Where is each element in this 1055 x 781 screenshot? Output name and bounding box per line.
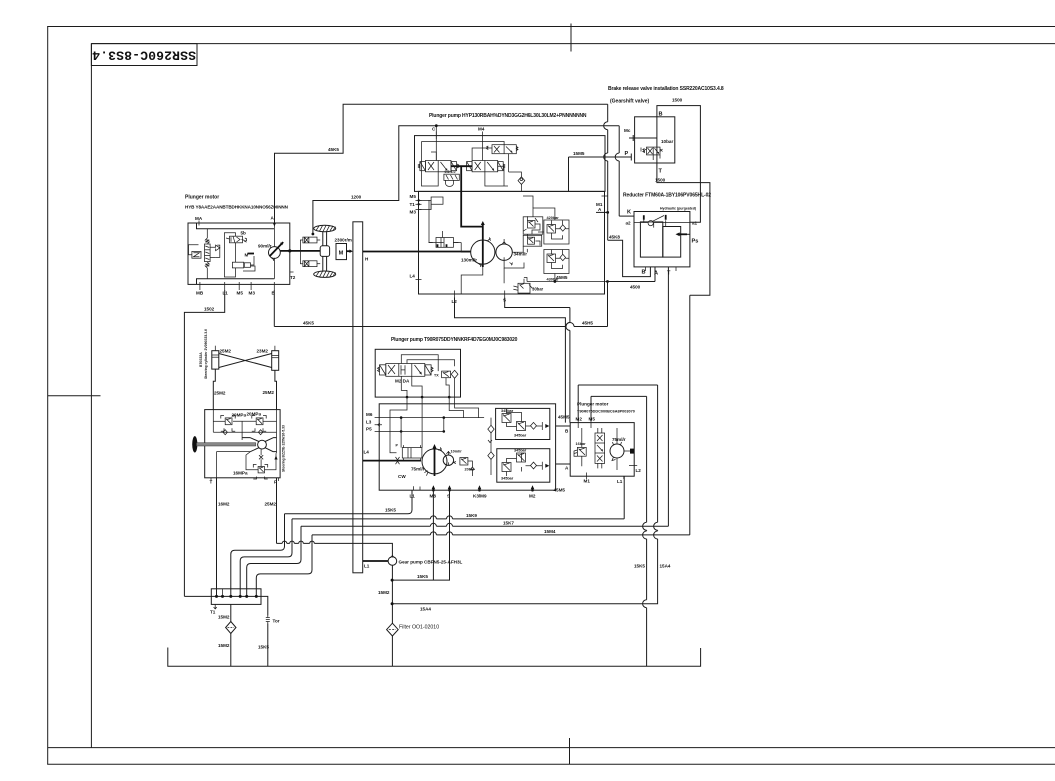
staircase wire 4 xyxy=(256,535,312,597)
wire: motor B port to long line 45K5 xyxy=(273,290,275,327)
svg-text:M: M xyxy=(245,253,249,258)
svg-text:K: K xyxy=(627,210,631,216)
svg-text:10ml/r: 10ml/r xyxy=(451,450,463,454)
svg-text:SSR260C-8S3.4: SSR260C-8S3.4 xyxy=(92,48,196,63)
P1 directional valve V2 xyxy=(467,161,505,172)
steering unit box xyxy=(205,410,280,478)
svg-text:45K5: 45K5 xyxy=(303,321,314,326)
svg-text:M5: M5 xyxy=(589,417,596,422)
wire: H_c long return line xyxy=(312,529,690,535)
wire: gear pump down to filter xyxy=(378,565,431,623)
svg-text:a2: a2 xyxy=(626,221,632,226)
axle brake valve top xyxy=(303,237,320,243)
bottom tank rail xyxy=(168,648,701,667)
P1 hp relief block B 430bar xyxy=(544,250,569,282)
motor shuttle link bracket xyxy=(210,245,220,257)
P1 A-port line xyxy=(596,196,609,214)
wire: y385 line to V_d xyxy=(578,384,657,386)
svg-text:a1: a1 xyxy=(692,221,698,226)
wire: pump1 S to vibration supply xyxy=(505,298,570,423)
plunger motor inner top rail xyxy=(197,223,275,229)
svg-text:15M4: 15M4 xyxy=(544,529,556,534)
plunger motor inner bottom rail xyxy=(197,279,275,285)
staircase wire 3 xyxy=(247,526,301,596)
svg-text:L1: L1 xyxy=(223,291,229,296)
wire: outer top border xyxy=(47,26,1055,28)
steering cylinder right xyxy=(257,346,279,371)
motor output shaft xyxy=(280,249,320,252)
P1 relief 40bar b xyxy=(523,235,542,252)
port M4 xyxy=(478,127,485,161)
Tor drain valve xyxy=(258,616,280,667)
reducer inner boxes xyxy=(634,215,690,257)
wire: pump1 L2 to vibration xyxy=(455,298,566,423)
svg-text:23M2: 23M2 xyxy=(257,349,269,354)
svg-text:90ml/r: 90ml/r xyxy=(258,244,272,249)
svg-text:TX: TX xyxy=(434,374,439,378)
P1 bottom ports L2 S xyxy=(410,274,507,305)
title block SSR260C-8S3.4 xyxy=(91,44,197,66)
P1 check diamond xyxy=(509,172,525,191)
svg-text:CW: CW xyxy=(398,474,406,479)
P1 swash arrow xyxy=(481,221,485,267)
wire: pump2 M8 drain xyxy=(432,490,434,580)
svg-text:T1: T1 xyxy=(410,202,416,207)
reducer labels xyxy=(626,207,699,277)
P2 bottom ports xyxy=(410,485,536,498)
svg-text:Tor: Tor xyxy=(273,619,280,624)
svg-text:15A4: 15A4 xyxy=(420,607,431,612)
axle brake valve bottom xyxy=(303,261,320,267)
svg-text:15M2: 15M2 xyxy=(218,615,230,620)
pump P1 lower box xyxy=(419,191,605,294)
wire: inner bottom border line xyxy=(48,747,1055,749)
svg-text:1502: 1502 xyxy=(204,307,215,312)
wire: pump2 L1 to staircase xyxy=(285,490,413,514)
wire: C-line to reducer K xyxy=(615,126,634,216)
steering wheel xyxy=(192,436,256,452)
vibration motor title xyxy=(577,402,635,414)
reducer bottom port stubs xyxy=(646,267,677,282)
svg-text:345bar: 345bar xyxy=(514,434,527,438)
wire: manifold to Tor valve xyxy=(261,596,268,615)
svg-text:P5: P5 xyxy=(366,427,372,432)
svg-text:M4: M4 xyxy=(478,127,485,132)
drum axle shafts xyxy=(323,232,327,271)
svg-text:15M2: 15M2 xyxy=(378,590,390,595)
steering X orifice xyxy=(259,449,263,467)
wire: Ps column V_b xyxy=(689,295,691,535)
svg-text:20MPa: 20MPa xyxy=(232,413,247,418)
svg-text:B: B xyxy=(642,270,646,276)
svg-text:Gear pump CBFN5-25-AFH3L: Gear pump CBFN5-25-AFH3L xyxy=(399,560,463,565)
P2 pilot check + diamond xyxy=(434,370,458,378)
axle brake bracket wire xyxy=(300,240,303,264)
svg-text:Brake release valve installati: Brake release valve installation SSR220A… xyxy=(608,86,724,92)
svg-text:15K5: 15K5 xyxy=(258,645,269,650)
svg-text:0.8 3.0: 0.8 3.0 xyxy=(445,170,456,174)
svg-text:Plunger motor: Plunger motor xyxy=(185,195,219,201)
P1 servo piston xyxy=(429,231,459,247)
P2 internal buses xyxy=(382,404,484,453)
wire: P-line to brake valve xyxy=(569,151,632,191)
P2 left port labels xyxy=(364,412,383,455)
svg-text:M5: M5 xyxy=(410,194,417,199)
pump drive shaft xyxy=(363,251,471,253)
steering relief right 20MPa xyxy=(247,412,267,432)
svg-text:B70S32A: B70S32A xyxy=(199,352,203,367)
wire: long low-pressure line 45K5/45H5 xyxy=(274,326,607,328)
wire: steering T to manifold xyxy=(216,478,218,597)
wire: H_b long return line xyxy=(301,521,668,527)
wire: A-line jog to reducer B xyxy=(608,240,651,276)
svg-text:L2: L2 xyxy=(636,468,642,473)
svg-text:(Gearshift valve): (Gearshift valve) xyxy=(610,99,650,105)
svg-text:M2 DA: M2 DA xyxy=(395,379,410,384)
svg-text:Steering cylinder 2V090S33.3.6: Steering cylinder 2V090S33.3.6 xyxy=(204,329,208,379)
P2 main box xyxy=(379,404,555,490)
wire: V_c vertical xyxy=(634,396,647,666)
gearbox tall bar xyxy=(353,222,369,573)
svg-text:T2: T2 xyxy=(290,275,296,280)
svg-text:2300r/m: 2300r/m xyxy=(335,238,352,243)
svg-text:L4: L4 xyxy=(364,450,370,455)
svg-text:Plunger motor: Plunger motor xyxy=(577,402,609,407)
P1 valve link xyxy=(451,165,472,167)
steering relief 16MPa xyxy=(233,465,268,480)
svg-text:10bar: 10bar xyxy=(661,139,673,144)
P2 mid check diamonds xyxy=(488,418,494,475)
svg-text:25M2: 25M2 xyxy=(263,390,275,395)
steering rotor xyxy=(242,438,276,452)
motor orifice block xyxy=(232,253,255,272)
top centering tick xyxy=(570,24,572,52)
P2 sub-to-main stubs xyxy=(407,397,455,404)
steering right arrow branch xyxy=(246,452,278,470)
svg-text:15M2: 15M2 xyxy=(218,643,230,648)
vibration motor bottom ports xyxy=(584,466,642,485)
svg-text:15K9: 15K9 xyxy=(466,513,477,518)
brake valve Mc line xyxy=(629,135,657,141)
svg-text:Plunger pump HYP130RBAH%DYND3G: Plunger pump HYP130RBAH%DYND3GG2H6L30L30… xyxy=(429,113,587,119)
tank manifold block xyxy=(184,589,261,615)
plunger motor M1 title xyxy=(185,195,289,210)
svg-text:P: P xyxy=(625,151,629,157)
wire: right cylinder to steering R port xyxy=(275,370,277,409)
svg-text:Hydraulic (purgeated): Hydraulic (purgeated) xyxy=(660,207,696,211)
svg-text:4500: 4500 xyxy=(630,285,641,290)
svg-text:T1: T1 xyxy=(210,610,216,615)
svg-text:15K7: 15K7 xyxy=(503,521,514,526)
svg-text:20MPa: 20MPa xyxy=(247,412,262,417)
wire: M2/M5 feed stubs xyxy=(578,385,591,421)
svg-text:M5: M5 xyxy=(237,291,244,296)
P2 relief assembly upper 345bar xyxy=(496,408,550,439)
svg-text:M3: M3 xyxy=(249,291,256,296)
svg-text:T: T xyxy=(667,271,671,277)
vibration motor outer box xyxy=(570,423,634,477)
svg-text:HYB Y8AAE2AANBTBDHKKNA10NNO56Z: HYB Y8AAE2AANBTBDHKKNA10NNO56Z00NNN xyxy=(185,205,289,210)
wire: inner left border line xyxy=(90,44,92,748)
steering cylinder left xyxy=(212,346,232,369)
steering feedback line xyxy=(217,451,251,453)
vibration motor top ports M2 M5 xyxy=(576,417,596,429)
wire: left cylinder to steering L port xyxy=(213,369,215,410)
svg-text:K3/M9: K3/M9 xyxy=(473,494,487,499)
svg-text:M: M xyxy=(339,251,344,257)
P2 relief assembly lower 345bar xyxy=(497,449,550,483)
bottom centering tick xyxy=(569,738,571,764)
brake valve inner box xyxy=(635,117,675,163)
svg-text:15K5: 15K5 xyxy=(417,574,428,579)
svg-text:420bar: 420bar xyxy=(547,216,560,220)
gear pump xyxy=(363,555,463,569)
brake valve outer box xyxy=(657,106,701,183)
brake valve spool symbol xyxy=(641,147,663,160)
wire: 45K5 motor A to pump1 A-line xyxy=(275,104,608,223)
svg-text:25M2: 25M2 xyxy=(220,349,232,354)
wire: H_a long return line xyxy=(292,513,624,519)
svg-text:MA: MA xyxy=(195,216,203,221)
staircase wire 1 xyxy=(231,514,285,597)
svg-text:45M5: 45M5 xyxy=(558,415,570,420)
motor relief valve 5b xyxy=(226,231,247,263)
svg-text:75ml/r: 75ml/r xyxy=(612,437,626,442)
motor shuttle valve xyxy=(205,229,211,279)
svg-text:16MPa: 16MPa xyxy=(233,471,248,476)
svg-text:15M5: 15M5 xyxy=(573,151,585,156)
brake release valve title xyxy=(608,86,724,105)
svg-text:45H5: 45H5 xyxy=(582,321,593,326)
P1 main circle xyxy=(461,237,495,266)
wire: A-line vertical x607.7 with hops xyxy=(604,104,608,240)
wire: P line to gear pump with hops xyxy=(277,541,393,557)
P1 hp relief block A 420bar xyxy=(544,216,569,244)
wire: motor L1 to left drop 1502 xyxy=(184,290,224,596)
svg-text:L4: L4 xyxy=(410,274,416,279)
svg-text:45K8: 45K8 xyxy=(609,235,620,240)
breather filter diamond xyxy=(218,604,236,666)
svg-text:Steering BZZ5E-125N/16-5.33: Steering BZZ5E-125N/16-5.33 xyxy=(282,425,286,472)
wire: reducer T down V_a xyxy=(667,272,669,527)
svg-text:Reducter FTM60A-1BY106PV065HL-: Reducter FTM60A-1BY106PV065HL-02 xyxy=(623,193,711,199)
svg-text:T90R075DDC000BC6A8P003070: T90R075DDC000BC6A8P003070 xyxy=(577,410,635,414)
P1 left ports M5 T1 M3 xyxy=(410,194,444,215)
pump P2 control sub-box xyxy=(375,349,460,397)
steering crossed hoses xyxy=(219,354,272,368)
svg-text:Filter OO1-02010: Filter OO1-02010 xyxy=(399,625,439,631)
left centering tick xyxy=(48,395,101,397)
wire: pump2 S drain xyxy=(392,490,449,580)
svg-text:1500: 1500 xyxy=(655,178,666,183)
svg-text:M3: M3 xyxy=(410,210,417,215)
P1 relief 40bar a xyxy=(523,216,543,238)
wire: outer bottom border xyxy=(47,763,1055,765)
svg-text:M1: M1 xyxy=(584,479,591,484)
wire: reducer A to pump1 B gallery xyxy=(608,282,656,327)
brake valve labels xyxy=(624,112,673,183)
wire: V_d vertical xyxy=(392,385,671,604)
P1 charge pump circle xyxy=(496,239,527,265)
svg-text:75ml/r: 75ml/r xyxy=(411,467,425,472)
P2 proportional valve xyxy=(378,364,434,384)
svg-text:15K5: 15K5 xyxy=(385,508,396,513)
wire: brake T to a1 xyxy=(690,183,701,223)
svg-text:M2: M2 xyxy=(529,494,536,499)
svg-text:45M5: 45M5 xyxy=(556,275,568,280)
svg-text:1200: 1200 xyxy=(351,195,362,200)
P2 sub-box wiring xyxy=(401,355,454,399)
motor bottom ports MB L1 M5 M3 B xyxy=(196,272,296,296)
svg-text:Plunger pump T90R075DDYNNKRF4D: Plunger pump T90R075DDYNNKRF4D7EG0MJ0C98… xyxy=(391,337,518,343)
wire: vibration L1 drain down xyxy=(623,476,625,519)
wire: outer left border xyxy=(47,27,49,765)
motor inner column xyxy=(224,233,235,277)
P2 charge circle xyxy=(443,450,462,466)
vibration shuttle valve xyxy=(595,428,605,468)
wire: steering P to gear pump xyxy=(276,478,278,544)
wire: 1200 drum brake line xyxy=(313,126,619,234)
vibration motor left ports B A xyxy=(556,426,571,471)
reducer outer box xyxy=(634,212,690,267)
wire: brake bottom to Ps column xyxy=(690,183,710,296)
steering T P ports xyxy=(210,478,279,485)
svg-text:345bar: 345bar xyxy=(501,477,514,481)
P2 shaft coupling xyxy=(363,457,421,464)
svg-text:L3: L3 xyxy=(366,420,372,425)
vibration L2 stub xyxy=(634,465,637,467)
svg-text:Mc: Mc xyxy=(624,128,631,133)
motor rotary group circle xyxy=(258,229,283,279)
vibration motor circle xyxy=(610,428,634,470)
staircase wire 2 xyxy=(240,519,292,597)
svg-text:16M2: 16M2 xyxy=(218,502,230,507)
svg-text:1500: 1500 xyxy=(672,98,683,103)
P1 bold control line xyxy=(461,166,483,226)
P1 pilot valve top right xyxy=(487,145,518,172)
drum top hatched ellipse xyxy=(314,225,336,231)
engine M box xyxy=(335,238,353,260)
reducer Ps arrow xyxy=(676,232,690,236)
axle gearbox center block xyxy=(320,246,329,257)
port C xyxy=(432,124,438,160)
vibration relief 16bar xyxy=(574,428,586,466)
svg-text:130ml/r: 130ml/r xyxy=(461,258,477,263)
svg-text:25M2: 25M2 xyxy=(214,391,226,396)
svg-text:45K5: 45K5 xyxy=(328,147,339,152)
svg-text:L1: L1 xyxy=(617,479,623,484)
svg-text:Ps: Ps xyxy=(692,239,699,245)
steering relief left 20MPa xyxy=(221,413,247,432)
P1 internal B gallery xyxy=(524,274,609,283)
svg-text:30bar: 30bar xyxy=(532,287,544,292)
svg-text:M6: M6 xyxy=(366,412,373,417)
svg-text:15K5: 15K5 xyxy=(634,564,645,569)
P2 main circle xyxy=(398,444,447,479)
drum bottom hatched ellipse xyxy=(314,271,336,277)
P2 servo cylinder xyxy=(396,444,422,462)
wire: y396 line 45M5 to V_c xyxy=(591,395,647,397)
filter 001-02010 xyxy=(387,623,440,666)
svg-text:B: B xyxy=(659,112,663,118)
svg-text:25M2: 25M2 xyxy=(265,502,277,507)
svg-text:M2: M2 xyxy=(576,417,583,422)
P2 20bar relief xyxy=(453,458,475,477)
motor shuttle pilot box xyxy=(189,245,202,258)
port A (motor top) xyxy=(271,216,277,229)
P1 inner wiring xyxy=(422,142,555,295)
steering check diamonds line xyxy=(213,410,276,454)
pump P1 upper box xyxy=(415,136,606,192)
wire: inner top border line xyxy=(91,43,1055,45)
svg-text:5b: 5b xyxy=(241,231,247,236)
svg-text:MB: MB xyxy=(196,291,204,296)
port MA xyxy=(195,216,203,226)
svg-text:15A4: 15A4 xyxy=(660,564,671,569)
svg-text:T: T xyxy=(659,169,663,175)
svg-text:45M5: 45M5 xyxy=(554,488,566,493)
P1 directional valve V1 xyxy=(418,161,459,172)
P1 low relief 30bar xyxy=(513,279,543,293)
plunger motor M1 outline xyxy=(188,223,290,284)
svg-text:L1: L1 xyxy=(364,564,370,569)
svg-text:345bar: 345bar xyxy=(514,449,527,453)
svg-text:16bar: 16bar xyxy=(576,442,587,446)
P1 orifice bypass xyxy=(444,170,459,186)
